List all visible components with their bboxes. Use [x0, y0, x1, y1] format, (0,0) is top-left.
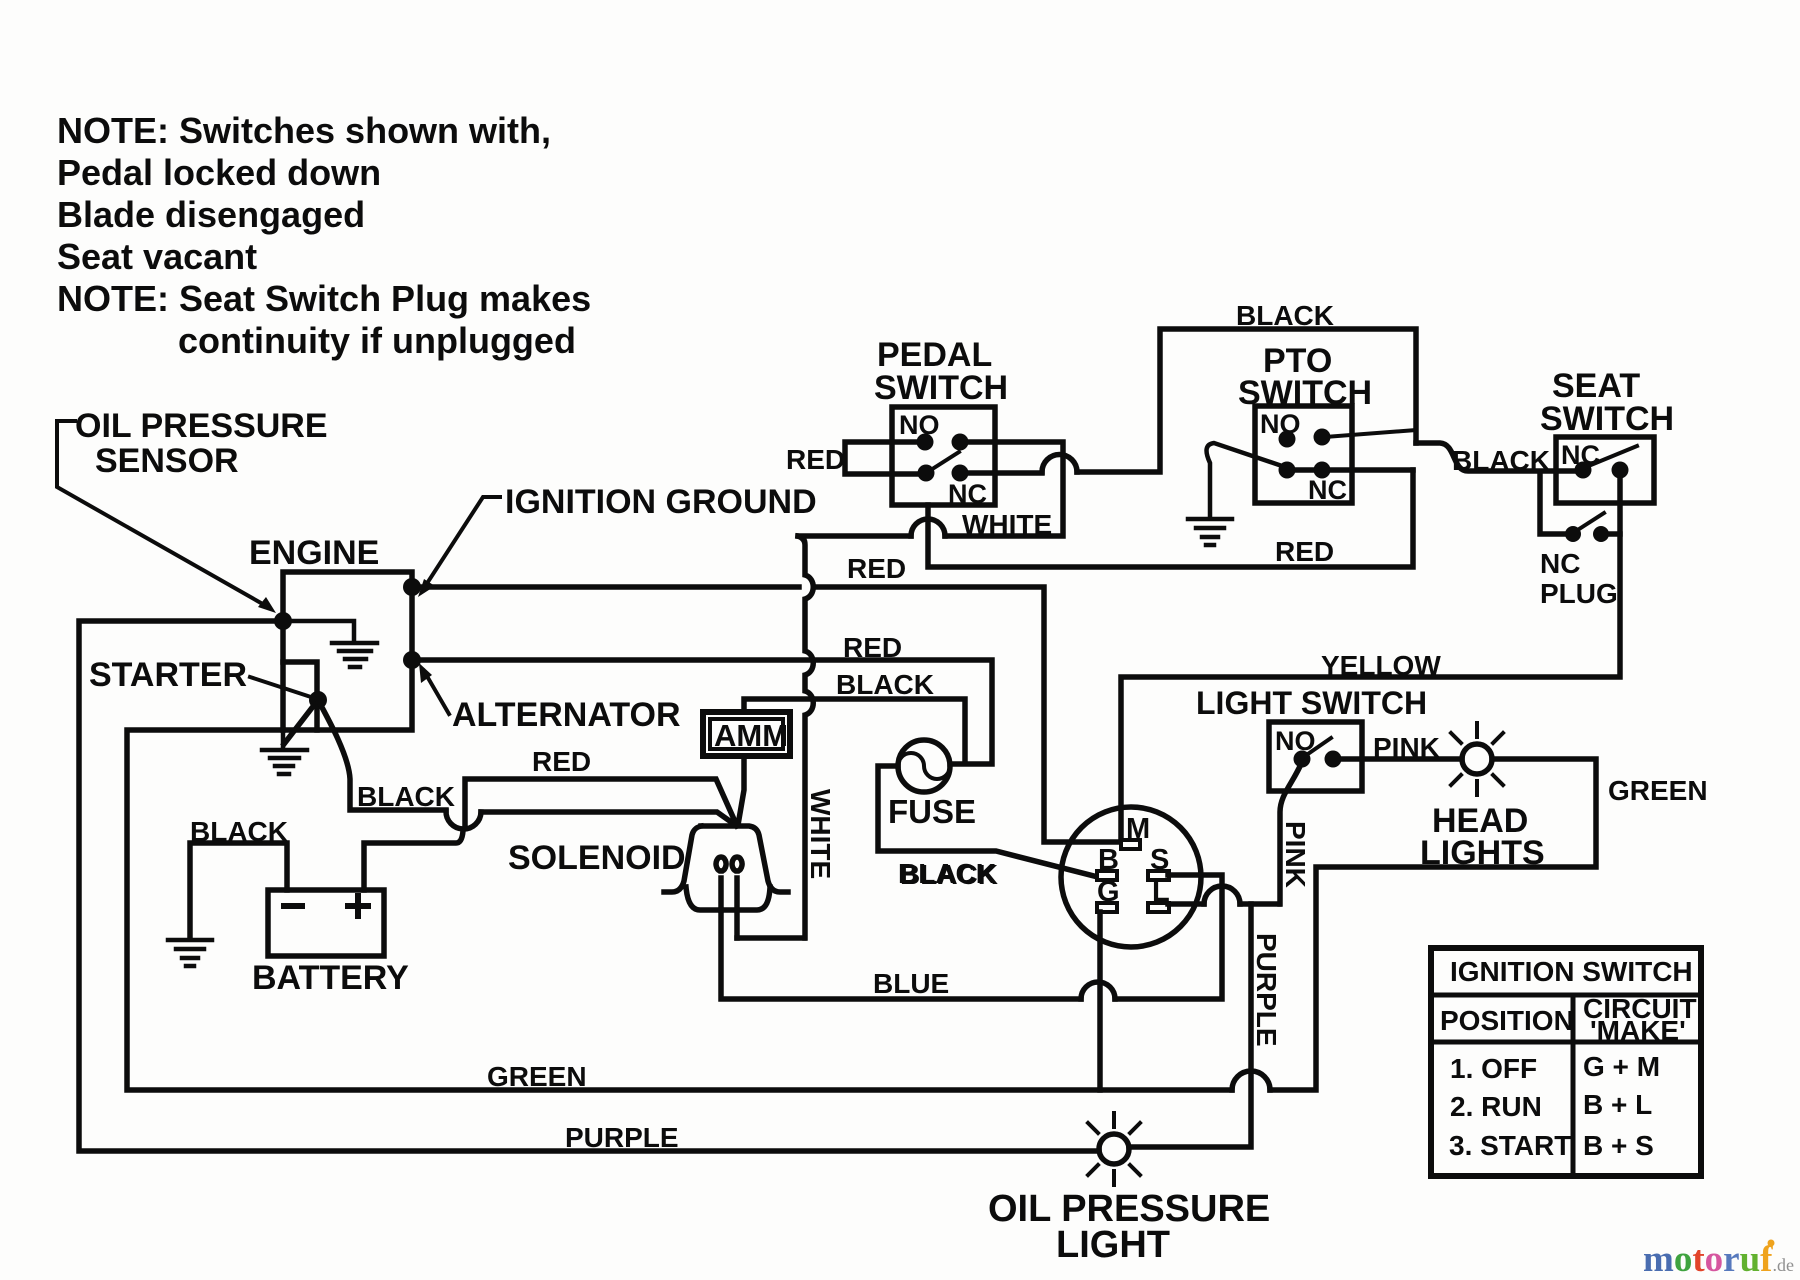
wire: red engine to fuse [412, 660, 992, 764]
light switch lever [1305, 738, 1331, 756]
nc plug label [1540, 548, 1618, 609]
ground (starter) [262, 730, 307, 774]
svg-text:NO: NO [899, 410, 940, 440]
wire hop: L over blue vertical [1204, 886, 1240, 904]
svg-text:RED: RED [532, 746, 591, 777]
svg-text:RED: RED [847, 553, 906, 584]
wire: starter to ground diagonal [284, 700, 318, 744]
svg-text:B + S: B + S [1583, 1130, 1654, 1161]
wire: pto to seat switch [1416, 443, 1583, 471]
light switch box [1269, 722, 1362, 791]
seat contacts [1575, 462, 1592, 479]
wire: ammeter bottom lead to solenoid [738, 756, 744, 825]
svg-text:NOTE: Switches shown with,: NOTE: Switches shown with, [57, 110, 551, 151]
starter sub-box [283, 662, 317, 730]
svg-text:Seat vacant: Seat vacant [57, 236, 257, 277]
svg-text:NC: NC [1540, 548, 1580, 579]
wire: pto NC row [1287, 467, 1413, 473]
node: starter terminal [309, 691, 327, 709]
wire: fuse left stub and bracket to B terminal [878, 766, 1094, 876]
light switch contacts [1294, 751, 1311, 768]
svg-text:continuity if unplugged: continuity if unplugged [178, 320, 576, 361]
wire: starter black cable [318, 700, 446, 810]
oil pressure sensor label [75, 407, 328, 480]
motoruf logo [1643, 1239, 1794, 1280]
battery plus symbol [348, 896, 368, 916]
wire: solenoid pin to white vertical [737, 935, 804, 941]
svg-text:BATTERY: BATTERY [252, 959, 409, 997]
wire: battery minus to ground [190, 843, 287, 938]
solenoid pin 2 [732, 857, 742, 938]
wire: seat to NC plug / yellow [1121, 470, 1620, 838]
solenoid body [701, 826, 788, 892]
svg-text:PINK: PINK [1280, 821, 1311, 888]
wire: purple run (engine to oil pressure light) [79, 621, 1099, 1151]
wire: blue right portion to S terminal [1115, 875, 1222, 999]
ground (pto) [1188, 519, 1232, 545]
svg-text:WHITE: WHITE [962, 509, 1052, 540]
svg-text:LIGHT SWITCH: LIGHT SWITCH [1196, 685, 1427, 721]
pedal switch box [892, 407, 995, 505]
svg-text:ALTERNATOR: ALTERNATOR [452, 696, 681, 734]
wire: white vertical with jogs [798, 536, 813, 938]
wire: red solenoid feed [465, 779, 737, 827]
engine box [283, 572, 412, 730]
oil pressure sensor leader [57, 421, 276, 613]
wire: pedal common white down [928, 470, 1413, 567]
pto contacts [1279, 431, 1296, 448]
svg-text:NOTE: Seat Switch Plug makes: NOTE: Seat Switch Plug makes [57, 278, 591, 319]
svg-text:3. START: 3. START [1449, 1130, 1571, 1161]
headlights label [1420, 802, 1545, 872]
pto switch label [1238, 342, 1372, 412]
svg-text:BLUE: BLUE [873, 968, 949, 999]
node: ignition ground junction [403, 578, 421, 596]
note text block [57, 110, 591, 361]
junction cup (black/red/battery) [446, 811, 481, 829]
wire: pedal NC out [960, 470, 1042, 476]
fuse S divider [898, 753, 950, 779]
svg-text:NC: NC [948, 479, 987, 509]
svg-text:'MAKE': 'MAKE' [1590, 1015, 1686, 1046]
node: alternator junction [403, 651, 421, 669]
svg-text:Blade disengaged: Blade disengaged [57, 194, 365, 235]
wire hop: green over purple vertical [1232, 1071, 1270, 1090]
wire hop: pedal NC over NO vertical [1042, 455, 1077, 473]
svg-text:OIL PRESSURE: OIL PRESSURE [75, 407, 328, 445]
wire: NC to black overhead [1077, 329, 1416, 472]
svg-text:PLUG: PLUG [1540, 578, 1618, 609]
alternator leader [419, 663, 449, 714]
svg-text:2. RUN: 2. RUN [1450, 1091, 1542, 1122]
wire: nc plug left leg [1540, 472, 1566, 534]
pedal connector bracket [845, 442, 926, 474]
pedal contacts [917, 434, 934, 451]
seat lever [1586, 446, 1637, 467]
svg-text:BLACK: BLACK [1236, 300, 1334, 331]
wire: battery plus to junction [364, 831, 463, 890]
svg-text:RED: RED [786, 444, 845, 475]
svg-text:IGNITION SWITCH: IGNITION SWITCH [1450, 956, 1693, 987]
wire: green run (engine to headlights) [127, 730, 1232, 1090]
wire: red engine upper run [412, 587, 1118, 842]
wire: ammeter top black [744, 699, 965, 762]
pedal lever [926, 452, 959, 473]
svg-text:1. OFF: 1. OFF [1450, 1053, 1537, 1084]
wire: blue (solenoid pin down) [721, 910, 1081, 999]
pto ground lever [1207, 443, 1288, 517]
ground (engine internal) [283, 621, 377, 667]
wire: pedal NO out [945, 442, 1063, 536]
svg-text:PURPLE: PURPLE [1251, 933, 1282, 1047]
svg-text:YELLOW: YELLOW [1321, 650, 1441, 681]
fuse circle [898, 740, 950, 792]
pto lever to black wire [1325, 430, 1416, 437]
ammeter AMM box [703, 712, 790, 756]
wire hop: blue over G wire [1081, 982, 1115, 999]
oil pressure light label [988, 1188, 1270, 1266]
svg-text:SOLENOID: SOLENOID [508, 839, 686, 877]
svg-text:RED: RED [1275, 536, 1334, 567]
seat switch box [1556, 437, 1654, 503]
seat switch label [1540, 367, 1674, 438]
svg-text:B + L: B + L [1583, 1089, 1652, 1120]
svg-text:SWITCH: SWITCH [1540, 400, 1674, 438]
ignition switch circle [1061, 807, 1201, 947]
svg-text:GREEN: GREEN [487, 1061, 587, 1092]
wire: purple vertical to oil light [1129, 904, 1251, 1147]
svg-text:Pedal locked down: Pedal locked down [57, 152, 381, 193]
wire: nc plug right leg [1608, 531, 1620, 537]
oil pressure light lamp [1088, 1113, 1140, 1185]
wire: light switch to headlights [1333, 756, 1462, 762]
wire: G terminal down to green [1097, 912, 1103, 1090]
ground (battery) [168, 940, 212, 966]
wire: green run right portion [1270, 759, 1596, 1090]
svg-text:WHITE: WHITE [805, 789, 836, 879]
svg-text:POSITION: POSITION [1440, 1005, 1574, 1036]
node: oil pressure sensor junction [274, 612, 292, 630]
solenoid pin 1 [716, 857, 726, 910]
svg-text:SENSOR: SENSOR [95, 442, 239, 480]
svg-text:BLACK: BLACK [836, 669, 934, 700]
nc plug lever [1576, 513, 1604, 531]
wire: L terminal to pink/purple [1168, 901, 1204, 907]
wire: L to pink corner [1240, 901, 1279, 907]
wire hop: red536 over pedal white [911, 519, 945, 536]
pto switch box [1255, 406, 1352, 503]
svg-text:PURPLE: PURPLE [565, 1122, 679, 1153]
battery box [268, 890, 384, 956]
ignition ground leader [418, 497, 500, 597]
svg-text:STARTER: STARTER [89, 656, 247, 694]
svg-text:SWITCH: SWITCH [874, 369, 1008, 407]
starter leader [250, 677, 314, 698]
wire: pink down to L [1280, 762, 1302, 904]
svg-text:AMM: AMM [714, 718, 788, 753]
svg-text:BLACK: BLACK [898, 858, 996, 889]
svg-text:GREEN: GREEN [1608, 775, 1708, 806]
svg-text:G + M: G + M [1583, 1051, 1660, 1082]
ignition switch table [1431, 948, 1701, 1176]
pedal switch label [874, 336, 1008, 407]
headlights lamp [1441, 723, 1513, 795]
svg-text:LIGHT: LIGHT [1056, 1224, 1170, 1266]
nc plug contacts [1565, 526, 1581, 542]
svg-text:IGNITION GROUND: IGNITION GROUND [505, 483, 817, 521]
wire: black cable to solenoid [481, 812, 734, 824]
svg-text:NC: NC [1308, 475, 1347, 505]
svg-text:ENGINE: ENGINE [249, 534, 379, 572]
wire: red536 left part [798, 533, 911, 539]
svg-text:LIGHTS: LIGHTS [1420, 834, 1545, 872]
svg-text:FUSE: FUSE [888, 793, 976, 830]
battery minus symbol [284, 903, 302, 909]
